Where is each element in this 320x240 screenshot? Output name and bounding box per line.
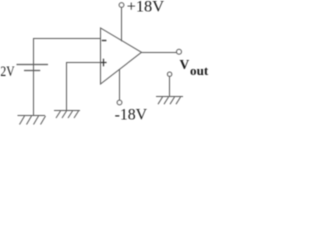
terminal circle -18V [117, 100, 122, 105]
battery V1 short plate [24, 70, 40, 72]
terminal circle output ground side [167, 72, 171, 76]
wire op-amp output [142, 52, 177, 54]
svg-text:Vout: Vout [180, 57, 209, 78]
wire battery top to inverting input [34, 39, 101, 65]
op-amp inverting marker - [102, 40, 107, 42]
ground G1 under battery [18, 116, 46, 125]
battery V1 long plate [17, 64, 49, 66]
svg-text:-18V: -18V [115, 107, 148, 124]
op-amp non-inverting marker + [101, 59, 107, 67]
ground G2 under non-inverting input [54, 111, 80, 119]
terminal circle +18V [119, 3, 124, 8]
wire +18V supply to op-amp top edge [121, 7, 123, 41]
wire battery bottom to ground [33, 65, 35, 116]
wire output ground terminal to ground [169, 76, 171, 96]
wire op-amp bottom edge to -18V terminal [119, 69, 121, 100]
terminal circle output [177, 49, 182, 54]
ground G3 at output [156, 97, 183, 105]
svg-text:+18V: +18V [127, 0, 165, 16]
wire non-inverting input to ground [67, 63, 101, 111]
op-amp U1 triangle [101, 28, 142, 84]
svg-text:2V: 2V [0, 64, 14, 80]
